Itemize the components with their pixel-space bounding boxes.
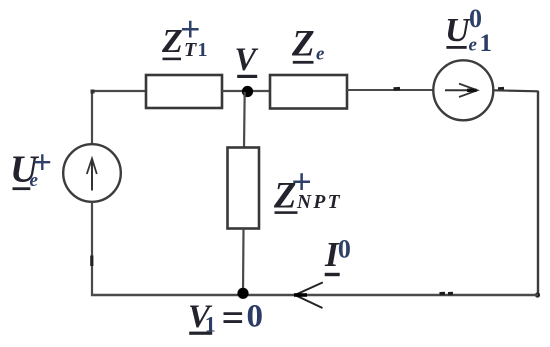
label node V bbox=[235, 42, 259, 78]
node V dot bbox=[242, 86, 253, 97]
svg-text:0: 0 bbox=[247, 299, 264, 335]
source U_e+ arrow bbox=[87, 159, 97, 191]
svg-text:+: + bbox=[180, 9, 201, 49]
svg-text:+: + bbox=[33, 145, 52, 182]
impedance Z_e box bbox=[270, 75, 347, 109]
svg-text:+: + bbox=[291, 161, 312, 201]
wire Z_NPT down to bottom bbox=[242, 229, 245, 296]
svg-text:=: = bbox=[222, 295, 245, 340]
wire bottom horizontal bbox=[91, 294, 538, 296]
svg-text:0: 0 bbox=[469, 4, 482, 33]
wire between Z_T1 and Z_e bbox=[222, 90, 270, 92]
node bottom-right corner bbox=[535, 292, 540, 297]
wire left vertical upper bbox=[91, 90, 93, 145]
svg-text:e: e bbox=[316, 44, 325, 65]
ticks on bottom wire bbox=[440, 292, 454, 295]
node V1 dot bbox=[237, 288, 248, 299]
label Z_e bbox=[291, 24, 325, 65]
tick on wire before source bbox=[394, 87, 401, 91]
label U_e+ bbox=[10, 145, 52, 191]
wire left vertical lower bbox=[91, 202, 93, 297]
source U_e1^0 circle bbox=[433, 60, 493, 120]
tick on left wire bbox=[90, 256, 93, 267]
wire node V down to Z_NPT bbox=[243, 92, 246, 148]
svg-text:Z: Z bbox=[291, 24, 315, 65]
label V1 = 0 bbox=[188, 295, 263, 340]
label Z_T1+ bbox=[161, 9, 208, 61]
impedance Z_T1+ box bbox=[146, 75, 222, 108]
tick on wire after source bbox=[498, 87, 504, 90]
svg-text:e: e bbox=[469, 35, 478, 56]
current I^0 arrow on bottom wire bbox=[294, 282, 323, 308]
source U_e+ circle bbox=[63, 144, 121, 202]
node corner top-left bbox=[91, 90, 95, 94]
wire top-left horizontal bbox=[91, 90, 146, 92]
label I^0 bbox=[324, 234, 351, 276]
wire source to right corner bbox=[493, 90, 539, 91]
label Z_NPT+ bbox=[273, 161, 342, 215]
impedance Z_NPT+ box bbox=[228, 148, 260, 229]
source U_e1^0 arrow bbox=[445, 84, 477, 97]
label U_e1^0 bbox=[445, 4, 492, 57]
svg-text:0: 0 bbox=[338, 234, 351, 263]
wire right vertical bbox=[537, 91, 539, 296]
svg-text:1: 1 bbox=[480, 30, 493, 57]
svg-text:V: V bbox=[235, 42, 259, 78]
wire Z_e to source U_e1 bbox=[347, 89, 434, 91]
